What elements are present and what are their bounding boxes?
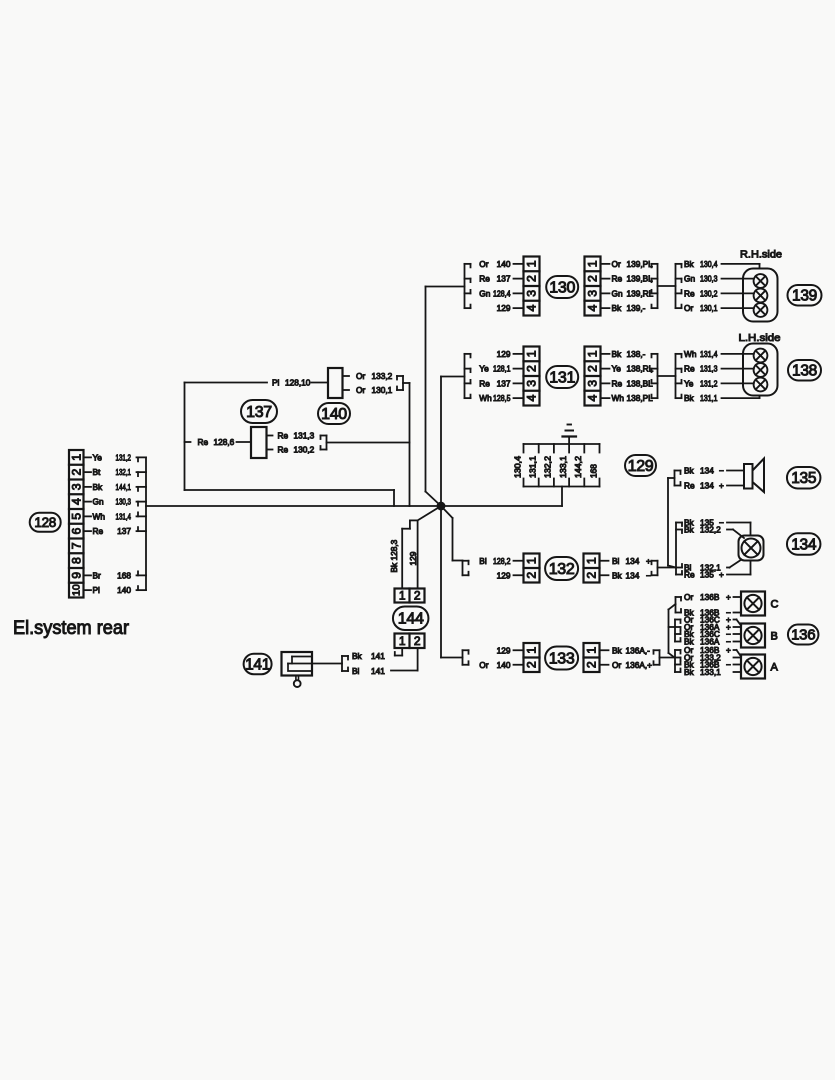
svg-text:1: 1 [525, 260, 539, 267]
svg-text:130,4: 130,4 [700, 259, 718, 269]
svg-text:Gn: Gn [479, 288, 490, 298]
svg-text:Re: Re [198, 437, 209, 447]
svg-text:Bk: Bk [684, 393, 695, 403]
svg-text:128,2: 128,2 [493, 556, 511, 566]
svg-text:129: 129 [408, 551, 418, 565]
svg-text:2: 2 [525, 572, 539, 579]
svg-text:Or: Or [479, 259, 488, 269]
svg-text:1: 1 [585, 647, 599, 654]
svg-text:3: 3 [586, 380, 600, 387]
svg-text:Gn: Gn [93, 497, 104, 507]
svg-text:130,3: 130,3 [700, 274, 718, 284]
svg-text:Ye: Ye [93, 452, 103, 462]
svg-text:130,2: 130,2 [700, 288, 718, 298]
svg-text:3: 3 [69, 483, 83, 490]
svg-text:136A,-: 136A,- [626, 645, 651, 655]
svg-text:1: 1 [399, 589, 406, 603]
svg-text:Ye: Ye [479, 364, 489, 374]
svg-text:140: 140 [321, 406, 347, 423]
svg-text:132,2: 132,2 [543, 456, 553, 478]
svg-text:144,1: 144,1 [116, 482, 132, 492]
svg-text:137: 137 [246, 404, 272, 421]
svg-text:140: 140 [497, 660, 511, 670]
svg-text:4: 4 [586, 395, 600, 402]
svg-text:1: 1 [69, 454, 83, 461]
svg-text:Bk: Bk [93, 482, 104, 492]
svg-text:3: 3 [525, 290, 539, 297]
svg-text:131,2: 131,2 [700, 378, 718, 388]
svg-text:2: 2 [525, 365, 539, 372]
svg-text:131: 131 [549, 370, 575, 387]
svg-text:2: 2 [414, 589, 421, 603]
svg-text:1: 1 [525, 557, 539, 564]
svg-text:133: 133 [549, 651, 575, 668]
svg-text:135: 135 [700, 570, 714, 580]
svg-text:Wh: Wh [479, 393, 492, 403]
svg-text:130: 130 [549, 280, 575, 297]
svg-text:128,6: 128,6 [214, 437, 235, 447]
svg-text:Pl: Pl [93, 585, 101, 595]
svg-text:Wh: Wh [684, 349, 697, 359]
svg-text:Bk: Bk [684, 259, 695, 269]
svg-text:Bk: Bk [352, 651, 363, 661]
svg-text:Re: Re [684, 570, 695, 580]
svg-text:Bk: Bk [612, 303, 623, 313]
svg-text:130,4: 130,4 [512, 456, 522, 478]
svg-text:Bk: Bk [612, 645, 623, 655]
svg-text:141: 141 [245, 656, 270, 673]
svg-text:2: 2 [69, 469, 83, 476]
svg-text:128,1: 128,1 [493, 364, 511, 374]
svg-text:132,2: 132,2 [700, 525, 721, 535]
svg-text:Gn: Gn [684, 274, 695, 284]
svg-text:A: A [771, 662, 779, 674]
svg-text:+: + [646, 556, 651, 566]
svg-text:Bl: Bl [479, 556, 487, 566]
svg-text:Bl: Bl [612, 556, 620, 566]
svg-text:1: 1 [586, 350, 600, 357]
svg-text:130,1: 130,1 [372, 385, 393, 395]
svg-text:Or: Or [612, 660, 621, 670]
svg-text:140: 140 [117, 585, 131, 595]
svg-text:131,3: 131,3 [294, 431, 315, 441]
svg-text:133,1: 133,1 [558, 456, 568, 478]
svg-text:136A,+: 136A,+ [626, 660, 653, 670]
svg-text:Re: Re [278, 431, 289, 441]
svg-text:2: 2 [586, 275, 600, 282]
svg-text:139,-: 139,- [627, 303, 646, 313]
svg-text:139: 139 [792, 288, 817, 305]
svg-text:133,1: 133,1 [700, 667, 721, 677]
svg-text:Re: Re [93, 526, 104, 536]
svg-text:Or: Or [479, 660, 488, 670]
svg-text:Re: Re [479, 274, 490, 284]
svg-text:1: 1 [525, 647, 539, 654]
svg-text:Wh: Wh [612, 393, 625, 403]
svg-text:Bk: Bk [612, 349, 623, 359]
svg-text:+: + [726, 645, 731, 655]
svg-text:131,4: 131,4 [700, 349, 718, 359]
svg-text:136B: 136B [700, 592, 720, 602]
svg-text:134: 134 [700, 481, 714, 491]
svg-text:137: 137 [497, 378, 511, 388]
svg-text:134: 134 [791, 536, 817, 553]
svg-text:139,PL: 139,PL [627, 259, 654, 269]
svg-text:137: 137 [117, 526, 131, 536]
svg-text:Bk: Bk [684, 466, 695, 476]
svg-text:138,PL: 138,PL [627, 393, 654, 403]
svg-text:R.H.side: R.H.side [740, 249, 782, 261]
svg-text:1: 1 [399, 634, 406, 648]
svg-text:+: + [726, 592, 731, 602]
svg-text:Pl: Pl [272, 378, 280, 388]
svg-text:128,3: 128,3 [389, 539, 399, 560]
svg-text:129: 129 [497, 303, 511, 313]
svg-text:+: + [719, 481, 724, 491]
svg-text:1: 1 [525, 350, 539, 357]
svg-text:8: 8 [69, 557, 83, 564]
svg-text:2: 2 [586, 365, 600, 372]
svg-text:2: 2 [525, 275, 539, 282]
svg-text:136: 136 [791, 627, 815, 644]
svg-text:Ye: Ye [684, 378, 694, 388]
svg-text:138,RL: 138,RL [627, 364, 654, 374]
svg-text:2: 2 [414, 634, 421, 648]
svg-text:Re: Re [684, 364, 695, 374]
svg-text:Wh: Wh [93, 511, 106, 521]
svg-text:131,4: 131,4 [116, 511, 132, 521]
svg-text:144,2: 144,2 [573, 456, 583, 478]
svg-text:4: 4 [525, 395, 539, 402]
svg-text:6: 6 [69, 528, 83, 535]
svg-text:141: 141 [371, 666, 385, 676]
svg-text:133,2: 133,2 [372, 371, 393, 381]
svg-text:3: 3 [525, 380, 539, 387]
svg-text:2: 2 [585, 572, 599, 579]
svg-text:L.H.side: L.H.side [739, 332, 781, 344]
svg-text:131,3: 131,3 [700, 364, 718, 374]
svg-text:3: 3 [586, 290, 600, 297]
svg-text:134: 134 [626, 570, 640, 580]
svg-text:138: 138 [792, 363, 817, 380]
svg-text:C: C [771, 599, 779, 611]
svg-text:4: 4 [525, 305, 539, 312]
svg-text:Or: Or [684, 592, 693, 602]
svg-text:Bk: Bk [684, 525, 695, 535]
svg-text:129: 129 [497, 570, 511, 580]
svg-text:137: 137 [497, 274, 511, 284]
svg-text:131,2: 131,2 [116, 452, 132, 462]
svg-text:−: − [726, 660, 731, 670]
svg-text:Ye: Ye [612, 364, 622, 374]
svg-text:4: 4 [586, 305, 600, 312]
svg-text:131,1: 131,1 [528, 456, 538, 478]
svg-text:Re: Re [479, 378, 490, 388]
svg-text:Or: Or [684, 303, 693, 313]
svg-text:144: 144 [398, 611, 424, 628]
svg-text:Br: Br [93, 570, 102, 580]
svg-text:Re: Re [612, 378, 623, 388]
svg-text:131,1: 131,1 [700, 393, 718, 403]
svg-text:Bk: Bk [684, 667, 695, 677]
svg-text:130,2: 130,2 [294, 445, 315, 455]
svg-text:Re: Re [684, 481, 695, 491]
svg-text:El.system rear: El.system rear [13, 617, 129, 639]
svg-text:Or: Or [356, 371, 365, 381]
svg-text:130,1: 130,1 [700, 303, 718, 313]
svg-text:Re: Re [278, 445, 289, 455]
svg-text:129: 129 [628, 458, 654, 475]
svg-text:2: 2 [585, 661, 599, 668]
svg-text:Gn: Gn [612, 288, 623, 298]
svg-text:Bt: Bt [93, 467, 102, 477]
svg-text:B: B [771, 631, 778, 643]
svg-text:4: 4 [69, 498, 83, 505]
svg-text:138,-: 138,- [627, 349, 646, 359]
svg-text:129: 129 [497, 349, 511, 359]
svg-text:140: 140 [497, 259, 511, 269]
svg-text:2: 2 [525, 661, 539, 668]
svg-text:1: 1 [585, 557, 599, 564]
svg-text:Bk: Bk [612, 570, 623, 580]
svg-text:139,RL: 139,RL [627, 288, 654, 298]
svg-text:Bk: Bk [389, 562, 399, 573]
svg-text:Or: Or [356, 385, 365, 395]
svg-text:134: 134 [626, 556, 640, 566]
svg-text:130,3: 130,3 [116, 497, 132, 507]
svg-text:128: 128 [34, 515, 56, 530]
svg-text:128,5: 128,5 [493, 393, 511, 403]
svg-text:9: 9 [69, 572, 83, 579]
svg-text:10: 10 [70, 584, 82, 596]
svg-text:Or: Or [612, 259, 621, 269]
svg-text:168: 168 [117, 570, 131, 580]
svg-text:−: − [719, 466, 724, 476]
svg-text:132,1: 132,1 [116, 467, 132, 477]
svg-text:139,BL: 139,BL [627, 274, 654, 284]
svg-text:Re: Re [684, 288, 695, 298]
svg-text:135: 135 [791, 470, 816, 487]
svg-text:+: + [719, 570, 724, 580]
svg-text:168: 168 [588, 464, 598, 478]
svg-text:128,10: 128,10 [285, 378, 311, 388]
svg-text:Bl: Bl [352, 666, 360, 676]
svg-text:1: 1 [586, 260, 600, 267]
svg-text:128,4: 128,4 [493, 288, 511, 298]
svg-text:138,BL: 138,BL [627, 378, 654, 388]
svg-text:7: 7 [69, 542, 83, 549]
svg-text:141: 141 [371, 651, 385, 661]
svg-text:129: 129 [497, 645, 511, 655]
svg-text:134: 134 [700, 466, 714, 476]
svg-text:−: − [646, 570, 651, 580]
svg-text:5: 5 [69, 513, 83, 520]
svg-text:132: 132 [549, 561, 575, 578]
svg-text:Re: Re [612, 274, 623, 284]
